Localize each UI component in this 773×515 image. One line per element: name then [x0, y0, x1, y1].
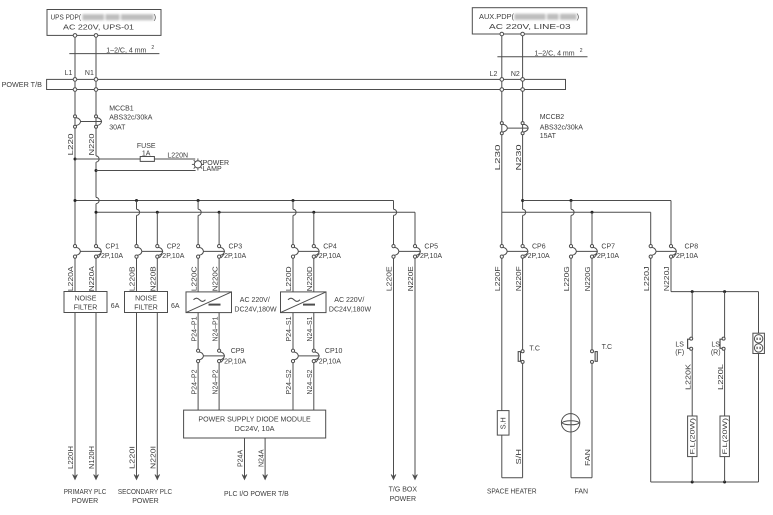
- svg-text:L220H: L220H: [68, 446, 75, 469]
- svg-text:L220J: L220J: [644, 266, 651, 291]
- svg-text:L220: L220: [68, 133, 75, 155]
- svg-text:L220F: L220F: [495, 266, 502, 291]
- svg-text:L220C: L220C: [191, 266, 198, 291]
- svg-text:P24A: P24A: [238, 450, 245, 467]
- svg-text:2P,10A: 2P,10A: [162, 253, 184, 260]
- svg-text:SECONDARY PLC: SECONDARY PLC: [118, 489, 172, 496]
- svg-text:POWER SUPPLY DIODE MODULE: POWER SUPPLY DIODE MODULE: [198, 417, 311, 424]
- svg-text:FUSE: FUSE: [137, 143, 156, 150]
- svg-text:AUX.PDP(: AUX.PDP(: [479, 12, 514, 21]
- svg-text:FAN: FAN: [574, 488, 588, 495]
- svg-text:L1: L1: [65, 70, 73, 77]
- svg-text:P24–P1: P24–P1: [191, 316, 198, 341]
- svg-text:FAN: FAN: [585, 449, 592, 466]
- svg-text:CP7: CP7: [601, 244, 615, 251]
- svg-text:N220F: N220F: [516, 266, 523, 291]
- svg-text:N220D: N220D: [307, 266, 314, 291]
- svg-text:N1: N1: [85, 70, 94, 77]
- svg-text:6A: 6A: [111, 303, 120, 310]
- svg-text:2P,10A: 2P,10A: [597, 253, 619, 260]
- svg-text:N120H: N120H: [89, 446, 96, 469]
- svg-text:AC 220V/: AC 220V/: [240, 297, 270, 304]
- svg-text:L220A: L220A: [68, 266, 75, 291]
- svg-text:2P,10A: 2P,10A: [224, 358, 246, 365]
- svg-text:DC24V, 10A: DC24V, 10A: [235, 426, 275, 433]
- svg-text:2: 2: [580, 48, 583, 54]
- svg-text:30AT: 30AT: [109, 125, 126, 132]
- svg-text:POWER: POWER: [132, 498, 158, 505]
- svg-text:F.L(20W): F.L(20W): [722, 418, 729, 455]
- svg-text:N230: N230: [516, 144, 523, 170]
- svg-text:FILTER: FILTER: [134, 305, 158, 312]
- svg-text:(F): (F): [675, 349, 684, 356]
- svg-text:S.H: S.H: [500, 417, 507, 429]
- svg-text:L220L: L220L: [718, 364, 725, 390]
- svg-text:DC24V,180W: DC24V,180W: [329, 306, 372, 313]
- svg-text:N220B: N220B: [151, 266, 158, 291]
- svg-text:PLC I/O POWER T/B: PLC I/O POWER T/B: [224, 491, 289, 498]
- svg-text:N220: N220: [89, 133, 96, 155]
- svg-text:L220E: L220E: [387, 266, 394, 291]
- svg-text:N24–S2: N24–S2: [307, 369, 314, 394]
- svg-text:2P,10A: 2P,10A: [420, 253, 442, 260]
- svg-text:2P,10A: 2P,10A: [224, 253, 246, 260]
- svg-text:F.L(20W): F.L(20W): [690, 418, 697, 455]
- svg-text:1–2/C, 4 mm: 1–2/C, 4 mm: [106, 47, 146, 54]
- svg-text:N220J: N220J: [664, 266, 671, 291]
- svg-text:2: 2: [151, 45, 154, 51]
- svg-text:T.C: T.C: [602, 344, 613, 351]
- svg-text:FILTER: FILTER: [74, 305, 98, 312]
- svg-text:2P,10A: 2P,10A: [319, 358, 341, 365]
- svg-text:CP5: CP5: [424, 244, 438, 251]
- svg-text:N220E: N220E: [408, 266, 415, 291]
- svg-text:2P,10A: 2P,10A: [676, 253, 698, 260]
- svg-text:AC 220V, UPS-01: AC 220V, UPS-01: [63, 22, 134, 31]
- svg-text:AC 220V/: AC 220V/: [334, 297, 364, 304]
- svg-text:DC24V,180W: DC24V,180W: [234, 306, 277, 313]
- svg-text:2P,10A: 2P,10A: [319, 253, 341, 260]
- svg-text:POWER: POWER: [390, 496, 416, 503]
- svg-text:2P,10A: 2P,10A: [101, 253, 123, 260]
- svg-text:15AT: 15AT: [540, 133, 557, 140]
- svg-text:L220N: L220N: [167, 153, 188, 160]
- svg-text:CP8: CP8: [685, 244, 699, 251]
- svg-text:1–2/C, 4 mm: 1–2/C, 4 mm: [535, 51, 575, 58]
- svg-text:N220C: N220C: [212, 266, 219, 291]
- svg-text:N24–P1: N24–P1: [212, 316, 219, 341]
- svg-text:L220K: L220K: [685, 364, 692, 390]
- svg-text:N24A: N24A: [258, 449, 265, 467]
- svg-text:LS: LS: [675, 341, 684, 348]
- svg-text:PRIMARY PLC: PRIMARY PLC: [64, 489, 107, 496]
- svg-text:N24–P2: N24–P2: [212, 369, 219, 394]
- svg-text:N220I: N220I: [151, 446, 158, 469]
- svg-text:N220A: N220A: [89, 266, 96, 291]
- svg-text:N220G: N220G: [585, 266, 592, 291]
- svg-text:P24–S2: P24–S2: [286, 369, 293, 394]
- svg-text:NOISE: NOISE: [75, 296, 97, 303]
- svg-text:CP6: CP6: [532, 244, 546, 251]
- svg-text:6A: 6A: [171, 303, 180, 310]
- svg-text:UPS PDP(: UPS PDP(: [51, 13, 82, 22]
- svg-text:L220G: L220G: [564, 266, 571, 291]
- svg-text:LAMP: LAMP: [203, 166, 222, 173]
- svg-text:MCCB2: MCCB2: [540, 114, 565, 121]
- svg-text:POWER T/B: POWER T/B: [2, 82, 43, 89]
- svg-text:P24–S1: P24–S1: [286, 316, 293, 341]
- svg-text:LS: LS: [711, 341, 720, 348]
- svg-text:SPACE HEATER: SPACE HEATER: [487, 488, 537, 495]
- svg-text:CP10: CP10: [325, 348, 343, 355]
- svg-text:S/H: S/H: [516, 449, 523, 465]
- svg-text:MCCB1: MCCB1: [109, 105, 134, 112]
- svg-text:ABS32c/30kA: ABS32c/30kA: [109, 115, 153, 122]
- svg-text:L2: L2: [490, 71, 498, 78]
- svg-text:CP3: CP3: [229, 244, 243, 251]
- svg-text:CP9: CP9: [231, 348, 245, 355]
- svg-text:L220D: L220D: [286, 266, 293, 291]
- svg-text:AC 220V, LINE-03: AC 220V, LINE-03: [489, 22, 571, 31]
- svg-text:CP2: CP2: [167, 244, 181, 251]
- svg-text:T.C: T.C: [529, 346, 540, 353]
- svg-text:N2: N2: [511, 71, 520, 78]
- svg-text:2P,10A: 2P,10A: [528, 253, 550, 260]
- svg-text:CP1: CP1: [105, 244, 119, 251]
- svg-text:P24–P2: P24–P2: [191, 369, 198, 394]
- svg-text:CP4: CP4: [323, 244, 337, 251]
- svg-text:ABS32c/30kA: ABS32c/30kA: [540, 124, 584, 131]
- svg-text:L220B: L220B: [130, 266, 137, 291]
- svg-text:L230: L230: [495, 144, 502, 170]
- svg-text:T/G BOX: T/G BOX: [389, 486, 418, 493]
- svg-text:N24–S1: N24–S1: [307, 316, 314, 341]
- svg-text:L220I: L220I: [130, 446, 137, 469]
- svg-text:POWER: POWER: [72, 498, 98, 505]
- svg-text:1A: 1A: [142, 150, 151, 157]
- svg-text:NOISE: NOISE: [135, 296, 157, 303]
- svg-text:(R): (R): [711, 349, 721, 356]
